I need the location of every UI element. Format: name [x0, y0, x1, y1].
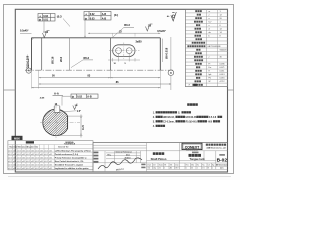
right chamfer line	[161, 39, 163, 62]
left chamfer corner	[32, 38, 34, 40]
svg-text:A&B Electronic Co., Ltd: A&B Electronic Co., Ltd	[207, 147, 226, 150]
feature control frame 3	[71, 94, 98, 98]
svg-text:1/1: 1/1	[202, 168, 204, 170]
datum balloon A	[26, 68, 31, 73]
svg-text:Date: Date	[126, 153, 130, 156]
svg-text:0.071: 0.071	[220, 67, 226, 69]
svg-text:General Tol: General Tol	[58, 146, 69, 148]
svg-text:±0.1: ±0.1	[31, 165, 34, 167]
svg-text:HRC43-48: HRC43-48	[186, 116, 198, 119]
svg-text:0.013: 0.013	[220, 74, 226, 76]
svg-text:±0.1: ±0.1	[40, 154, 43, 156]
svg-text:Rev.: Rev.	[108, 154, 112, 156]
title block grid	[93, 143, 228, 173]
svg-text:±0.1: ±0.1	[13, 161, 16, 163]
svg-text:±0.1: ±0.1	[31, 158, 34, 160]
svg-text:±0.1: ±0.1	[8, 161, 11, 163]
svg-text:2018-9: 2018-9	[125, 158, 131, 160]
svg-text:4.712: 4.712	[220, 81, 226, 83]
shaft step line 1	[41, 38, 43, 70]
company chinese	[206, 144, 208, 146]
svg-text:±0.1: ±0.1	[35, 150, 38, 152]
svg-text:±0.1: ±0.1	[49, 154, 52, 156]
svg-text:±0.1: ±0.1	[17, 168, 20, 170]
product name label	[192, 152, 199, 154]
part name chinese	[153, 152, 156, 155]
svg-text:Implicated in additive to afte: Implicated in additive to after patter	[55, 167, 89, 170]
svg-text:±0.1: ±0.1	[44, 150, 47, 152]
svg-text:±0.1: ±0.1	[26, 168, 29, 170]
logo box	[182, 143, 202, 149]
roughness near section	[73, 104, 77, 110]
dimension extension lines below	[32, 70, 161, 88]
svg-text:±0.1: ±0.1	[26, 150, 29, 152]
datum balloon A leader	[28, 59, 30, 68]
tolerance table header row2	[10, 145, 69, 148]
svg-text:New Carbult destination's, 2%: New Carbult destination's, 2%	[55, 160, 84, 163]
svg-text:±0.1: ±0.1	[40, 161, 43, 163]
svg-text:±0.1: ±0.1	[44, 165, 47, 167]
svg-text:-600: -600	[208, 122, 213, 124]
svg-text:±0.1: ±0.1	[35, 168, 38, 170]
gear table column lines	[185, 9, 227, 86]
svg-text:MBK: MBK	[14, 136, 20, 140]
section flat chord	[67, 116, 69, 129]
svg-text:1: 1	[197, 168, 198, 170]
svg-text:B-02: B-02	[217, 158, 228, 164]
slot top extension lines	[113, 33, 135, 37]
svg-text:±0.1: ±0.1	[49, 150, 52, 152]
datum balloon B leader	[170, 37, 172, 70]
svg-text:S04203: S04203	[220, 50, 228, 52]
section keyway notch	[54, 106, 60, 112]
fcf1 leader	[43, 21, 45, 33]
svg-text:Straddled Tencastle's anginal: Straddled Tencastle's anginal	[55, 164, 83, 167]
svg-text:±0.1: ±0.1	[26, 158, 29, 160]
slot dimension line above	[88, 32, 160, 34]
tolerance table english column	[55, 149, 91, 170]
svg-text:±0.1: ±0.1	[22, 158, 25, 160]
svg-text:45: 45	[191, 168, 193, 170]
signature scribble	[98, 158, 142, 169]
title block top edge	[93, 142, 228, 144]
svg-text:±0.1: ±0.1	[31, 150, 34, 152]
svg-text:±0.1: ±0.1	[22, 161, 25, 163]
svg-text:B: B	[208, 168, 209, 170]
shaft left edge	[31, 38, 33, 70]
svg-text:CONEXT: CONEXT	[185, 145, 200, 149]
svg-text:±0.1: ±0.1	[17, 150, 20, 152]
fcf2 leader	[84, 20, 86, 38]
svg-text:2:1: 2:1	[159, 168, 161, 170]
shaft axis centerline	[25, 69, 173, 71]
svg-text:±0.1: ±0.1	[13, 154, 16, 156]
svg-text:±0.1: ±0.1	[35, 158, 38, 160]
fcf3 leader	[62, 96, 71, 105]
angle leader	[62, 111, 77, 112]
svg-text:±0.1: ±0.1	[8, 158, 11, 160]
section circle hatched	[43, 109, 68, 135]
chamfer note left leader	[20, 32, 32, 34]
svg-text:R0.3: R0.3	[124, 23, 130, 27]
svg-text:±0.1: ±0.1	[17, 158, 20, 160]
right dim line of section	[56, 115, 83, 138]
dimension line y85.5	[32, 87, 161, 89]
centering tick left	[4, 89, 16, 91]
R0.3 label 2	[112, 23, 134, 38]
svg-text:±0.1: ±0.1	[31, 168, 34, 170]
svg-text:±0.1: ±0.1	[17, 154, 20, 156]
svg-text:mm: mm	[220, 168, 224, 170]
technical requirements title	[187, 103, 190, 106]
dim (0.3) leader	[63, 19, 70, 27]
svg-text:R0.3: R0.3	[84, 56, 90, 60]
svg-text:(-)This Bearing's The property: (-)This Bearing's The property of Next	[55, 149, 91, 152]
svg-text:A-B: A-B	[102, 17, 107, 20]
svg-text:±0.1: ±0.1	[40, 150, 43, 152]
svg-text:Nominal Tolerance/Angular Dim: Nominal Tolerance/Angular Dim	[10, 145, 39, 148]
tolerance table frame	[8, 141, 93, 170]
chain dimension line y77	[39, 77, 161, 79]
svg-text:A-B: A-B	[87, 96, 92, 99]
svg-text:±0.1: ±0.1	[22, 154, 25, 156]
svg-text:S.: S.	[178, 113, 181, 115]
svg-text:±0.1: ±0.1	[49, 168, 52, 170]
keyway slot circle left	[116, 48, 122, 54]
feature control frame 1	[38, 14, 55, 22]
svg-text:0.02: 0.02	[43, 15, 48, 18]
svg-text:0.02: 0.02	[90, 13, 95, 16]
tolerance table grid	[8, 145, 93, 170]
svg-text:HRC28-32,: HRC28-32,	[163, 117, 175, 119]
svg-text:0.5-0.8: 0.5-0.8	[209, 117, 217, 119]
svg-text:Ø12: Ø12	[59, 56, 63, 62]
svg-text:(0.): (0.)	[114, 13, 118, 17]
svg-text:TOLERANCE: TOLERANCE	[64, 143, 76, 146]
svg-text:W: W	[209, 81, 211, 83]
R0.3 label 1	[71, 56, 93, 68]
title block left labels	[94, 152, 99, 163]
svg-text:±0.1: ±0.1	[35, 161, 38, 163]
svg-text:General Tolerance: General Tolerance	[116, 152, 132, 154]
tolerance table cell values	[8, 150, 52, 170]
gear parameter table frame	[185, 9, 227, 86]
svg-text:1: 1	[164, 168, 165, 170]
svg-text:±0.1: ±0.1	[8, 150, 11, 152]
technical requirements line 4	[153, 125, 165, 128]
svg-text:±0.1: ±0.1	[44, 168, 47, 170]
svg-text:±0.1: ±0.1	[22, 168, 25, 170]
svg-text:±0.1: ±0.1	[17, 165, 20, 167]
keyway slot vertical centerline	[123, 43, 125, 60]
keyway slot circle right	[126, 48, 132, 54]
svg-text:±0.1: ±0.1	[13, 150, 16, 152]
svg-text:18.9: 18.9	[175, 168, 178, 170]
scan shadow line bottom	[8, 175, 231, 177]
svg-text:Pg: Pg	[202, 164, 204, 166]
inner border frame	[15, 9, 227, 172]
svg-text:±0.1: ±0.1	[8, 154, 11, 156]
product name chinese	[189, 154, 192, 157]
technical requirements line 2	[153, 116, 222, 119]
svg-text:±0.1: ±0.1	[13, 165, 16, 167]
shaft step line 3	[109, 38, 111, 70]
technical requirements line 1	[153, 111, 191, 114]
svg-text:R0.5(0-60): R0.5(0-60)	[186, 122, 197, 124]
svg-text:±0.1: ±0.1	[40, 158, 43, 160]
approval column marks	[141, 164, 145, 166]
tolerance table header blob left	[26, 141, 34, 143]
tolerance table header blob right	[64, 141, 76, 146]
svg-text:±0.1: ±0.1	[22, 150, 25, 152]
gear table values col3	[220, 11, 228, 83]
gear table row labels	[187, 10, 205, 86]
roughness symbol right	[146, 24, 153, 31]
outer border frame	[4, 5, 234, 174]
svg-text:0.5x45°: 0.5x45°	[157, 30, 166, 33]
svg-text:±0.1: ±0.1	[44, 154, 47, 156]
svg-text:±0.1: ±0.1	[8, 165, 11, 167]
svg-text:z: z	[209, 14, 210, 16]
svg-text:±0.1: ±0.1	[26, 154, 29, 156]
svg-text:±0.1: ±0.1	[26, 161, 29, 163]
svg-text:No: No	[197, 164, 199, 166]
svg-text:2.: 2.	[153, 116, 155, 119]
title block left edge	[92, 143, 94, 173]
svg-text:Shaft Pinion: Shaft Pinion	[151, 157, 167, 161]
svg-text:11.5: 11.5	[82, 125, 85, 130]
svg-text:4.: 4.	[153, 125, 155, 128]
gear table values col2	[207, 11, 221, 83]
svg-text:(0.3: (0.3	[57, 14, 62, 18]
svg-text:Privaty Tolerance incompatible: Privaty Tolerance incompatible w.	[55, 157, 87, 160]
svg-text:0.03: 0.03	[90, 17, 95, 20]
svg-text:Fr: Fr	[209, 64, 211, 66]
svg-text:±0.1: ±0.1	[40, 165, 43, 167]
shaft right edge	[159, 38, 161, 70]
svg-text:±0.1: ±0.1	[22, 165, 25, 167]
revision stamp box	[12, 136, 23, 141]
svg-text:0: 0	[186, 168, 187, 170]
svg-text:±0.1: ±0.1	[49, 161, 52, 163]
svg-text:0.5x45°: 0.5x45°	[20, 30, 29, 33]
svg-text:All Dimension: All Dimension	[216, 164, 227, 167]
feature control frame 2	[84, 12, 111, 21]
svg-text:d: d	[209, 28, 210, 30]
svg-text:±0.1: ±0.1	[26, 165, 29, 167]
svg-text:ha*: ha*	[209, 21, 212, 23]
technical requirements line 3	[153, 120, 220, 123]
datum balloon B	[168, 70, 174, 76]
roughness symbol on left step	[43, 31, 50, 38]
svg-text:±0.1: ±0.1	[13, 168, 16, 170]
svg-text:±0.1: ±0.1	[31, 161, 34, 163]
shaft top edge	[32, 37, 161, 39]
svg-text:z: z	[209, 57, 210, 59]
svg-text:±0.1: ±0.1	[17, 161, 20, 163]
svg-text:x: x	[209, 25, 210, 27]
general surface roughness symbol top-right	[171, 12, 176, 21]
svg-text:0.036: 0.036	[220, 64, 226, 66]
svg-text:C2-0.3mm,: C2-0.3mm,	[163, 122, 175, 124]
svg-text:0.02: 0.02	[77, 96, 82, 99]
svg-text:Drwn: Drwn	[147, 164, 151, 166]
svg-text:±0.1: ±0.1	[44, 161, 47, 163]
svg-text:3.: 3.	[153, 121, 155, 124]
keyway slot horizontal centerline	[109, 50, 140, 52]
svg-text:±0.1: ±0.1	[8, 168, 11, 170]
svg-text:A-B: A-B	[102, 13, 107, 16]
svg-text:1.: 1.	[153, 112, 155, 115]
centering tick right	[228, 89, 234, 91]
svg-text:±0.1: ±0.1	[35, 154, 38, 156]
svg-text:Tongue lock: Tongue lock	[189, 157, 205, 161]
svg-text:Partial enclosures (1,2-t): Partial enclosures (1,2-t)	[55, 153, 79, 156]
svg-text:A-A: A-A	[54, 91, 59, 95]
section crosshair vertical	[55, 105, 57, 140]
svg-text:±0.1: ±0.1	[44, 158, 47, 160]
keyway width dim 14	[54, 104, 60, 106]
svg-text:0.016: 0.016	[220, 78, 226, 80]
svg-text:Ø6-0.018: Ø6-0.018	[164, 47, 168, 59]
overall dimension line y81	[39, 83, 171, 85]
svg-text:GB/T10095-88: GB/T10095-88	[207, 46, 221, 48]
svg-text:Scale: Scale	[159, 164, 163, 166]
svg-text:±0.1: ±0.1	[40, 168, 43, 170]
svg-text:3xØ5: 3xØ5	[136, 40, 143, 43]
keyway slot outline	[113, 45, 135, 57]
svg-text:Ø8.16: Ø8.16	[51, 56, 55, 64]
svg-text:1.5°: 1.5°	[77, 110, 81, 113]
svg-text:45#: 45#	[153, 164, 156, 166]
svg-text:±0.1: ±0.1	[35, 165, 38, 167]
svg-text:±0.1: ±0.1	[49, 165, 52, 167]
svg-text:Chk: Chk	[147, 168, 150, 170]
svg-text:Rev: Rev	[186, 164, 189, 166]
svg-text:Ch: Ch	[208, 164, 210, 166]
drawing number label	[219, 154, 225, 156]
slot under dimension lines	[108, 54, 140, 62]
svg-text:±0.1: ±0.1	[49, 158, 52, 160]
section crosshair horizontal	[40, 121, 80, 123]
shaft step line 2	[69, 38, 71, 70]
svg-text:±0.1: ±0.1	[13, 158, 16, 160]
svg-text:±0.1: ±0.1	[31, 154, 34, 156]
bottom small cells texts	[147, 163, 214, 169]
